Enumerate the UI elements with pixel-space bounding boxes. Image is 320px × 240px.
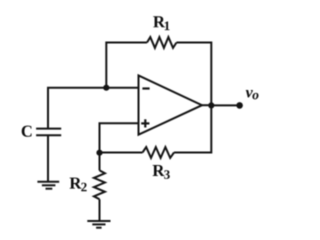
- resistor R2: [94, 170, 105, 199]
- label R3: [153, 165, 170, 179]
- wire: output node to output terminal: [211, 104, 239, 106]
- label R2: [70, 178, 87, 192]
- resistor R3: [143, 147, 175, 158]
- wire: feedback branch from node A up to R1 left terminal: [106, 43, 147, 88]
- label vo (output voltage): [246, 90, 259, 99]
- wire: non-inverting input from op-amp down to node B: [100, 123, 139, 152]
- label C: [22, 126, 32, 137]
- ground symbol under R2: [87, 221, 110, 228]
- wire: R3 left terminal to node B: [100, 152, 143, 154]
- node A: junction of feedback wire and inverting input: [103, 85, 109, 91]
- terminal: output terminal dot: [236, 102, 243, 109]
- wire: op-amp output apex to output node: [202, 104, 211, 106]
- wire: output node down to R3 right terminal (bottom-right corner): [174, 105, 211, 152]
- label R1: [153, 16, 169, 30]
- pin marker: inverting (-) input: [142, 87, 149, 89]
- pin marker: non-inverting (+) input: [141, 119, 149, 127]
- wire: R2 bottom terminal to ground: [99, 199, 101, 221]
- node B: junction of R2, R3 and non-inverting input: [96, 150, 102, 156]
- op-amp U1 triangle: [139, 76, 203, 135]
- node: output junction dot: [208, 102, 214, 108]
- wire: node B down to R2 top terminal: [99, 153, 101, 171]
- wire: R1 right terminal to output node (top-right corner): [177, 43, 212, 106]
- wire: inverting-input net from capacitor C up and right to op-amp minus input: [48, 88, 139, 129]
- resistor R1: [147, 37, 177, 48]
- capacitor C: [36, 129, 61, 136]
- wire: capacitor C bottom plate to ground: [47, 135, 49, 181]
- ground symbol under C: [37, 182, 59, 189]
